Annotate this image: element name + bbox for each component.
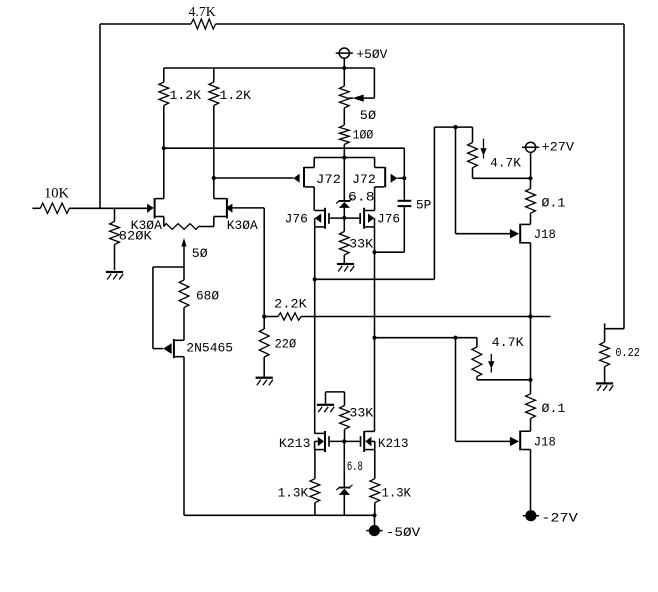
svg-text:68Ø: 68Ø — [196, 290, 219, 304]
svg-text:1.2K: 1.2K — [170, 89, 202, 103]
transistor Q2 K30A right — [214, 198, 233, 226]
wire gate line J72 left — [214, 177, 293, 179]
wire drain rail y148 — [164, 147, 404, 149]
svg-text:5P: 5P — [416, 198, 432, 212]
label R6 1.2K — [220, 89, 252, 103]
svg-text:5Ø: 5Ø — [360, 109, 377, 123]
label Q6 J76 — [285, 212, 308, 226]
wiper R7 — [349, 68, 375, 102]
svg-text:J76: J76 — [285, 212, 308, 226]
svg-text:33K: 33K — [349, 407, 373, 421]
potentiometer R3 50 — [164, 224, 214, 230]
label R9 33K — [349, 238, 373, 252]
zener D1 6.8 — [336, 158, 352, 218]
supply -50V — [366, 515, 382, 536]
svg-text:33K: 33K — [349, 238, 373, 252]
wire ground jog — [326, 392, 345, 406]
node divider — [262, 314, 266, 318]
supply -27V — [523, 510, 539, 521]
svg-text:+5ØV: +5ØV — [356, 48, 387, 62]
svg-text:K213: K213 — [378, 437, 409, 451]
svg-text:-5ØV: -5ØV — [386, 526, 421, 540]
ground GND4 — [317, 404, 334, 413]
resistor R5 1.2K — [159, 68, 169, 199]
node gate rail J76 — [342, 216, 346, 220]
node gate tap lower — [453, 336, 457, 340]
label R2 820K — [119, 230, 152, 244]
label R12 4.7K — [490, 157, 521, 171]
wire lower 4.7K line — [375, 337, 477, 339]
label Q7 J76 — [377, 212, 400, 226]
resistor R4 680 — [179, 267, 189, 340]
resistor R18 1.3K — [370, 479, 380, 516]
label R15 0.1 — [542, 402, 566, 416]
wiper arrow R3 — [181, 238, 186, 267]
transistor Q6 J76 left — [315, 208, 330, 279]
transistor Q10 K213 left — [315, 431, 330, 479]
svg-text:6.8: 6.8 — [348, 190, 375, 204]
node +27V branch — [528, 176, 532, 180]
ground GND5 — [596, 382, 613, 391]
resistor R16 33K — [340, 406, 350, 442]
svg-text:1.3K: 1.3K — [278, 487, 309, 501]
label Q10 K213 — [279, 437, 311, 451]
wire Q3 source down — [183, 357, 185, 516]
svg-text:10K: 10K — [44, 186, 70, 202]
arrow R12 — [480, 139, 486, 159]
node Q5 gate — [402, 176, 406, 180]
svg-text:4.7K: 4.7K — [492, 336, 524, 350]
wire Q5 gate — [397, 177, 404, 179]
transistor Q7 J76 right — [359, 208, 374, 252]
resistor R17 1.3K — [310, 479, 320, 516]
wire Q6 source to K213 — [314, 279, 316, 433]
label +50V — [356, 48, 387, 62]
resistor R9 33K — [339, 218, 349, 263]
resistor R2 820K — [110, 208, 120, 270]
zener D2 6.8 — [336, 441, 352, 515]
node -50V — [372, 513, 376, 517]
wire output line — [301, 316, 551, 318]
svg-text:5Ø: 5Ø — [192, 247, 208, 261]
wire left feedback drop — [99, 24, 101, 208]
label R18 1.3K — [382, 487, 412, 501]
wire folded rail — [315, 127, 473, 279]
rail top of loads — [164, 67, 375, 69]
resistor R11 220 — [259, 317, 269, 377]
resistor R6 1.2K — [209, 68, 219, 199]
wire 0.22 branch — [605, 323, 624, 342]
wire gate rail J76 — [330, 217, 359, 219]
node lower 0.1 top — [528, 378, 532, 382]
resistor R15 0.1 — [526, 379, 536, 431]
label R11 220 — [275, 338, 297, 352]
supply +27V — [522, 142, 539, 178]
svg-text:J18: J18 — [534, 436, 556, 450]
arrow R14 — [488, 354, 494, 373]
svg-text:1.2K: 1.2K — [220, 89, 252, 103]
transistor Q1 K30A left — [147, 198, 164, 226]
label D2 6.8 — [347, 460, 363, 474]
resistor R14 4.7K — [472, 338, 531, 380]
svg-text:+27V: +27V — [542, 141, 575, 155]
transistor Q11 K213 right — [360, 431, 375, 479]
resistor R8 100 — [339, 125, 349, 158]
wire gate rail K213 — [330, 440, 360, 442]
svg-text:Ø.1: Ø.1 — [542, 197, 566, 211]
node drain Q2 — [212, 176, 216, 180]
svg-text:Ø.1: Ø.1 — [542, 402, 566, 416]
wire J72 drain rail — [314, 157, 374, 159]
wire top feedback rail — [100, 23, 624, 25]
label R16 33K — [349, 407, 373, 421]
label R-IN 10K — [44, 186, 70, 202]
node +50V rail — [342, 66, 346, 70]
label -50V — [386, 526, 421, 540]
wire right feedback drop — [623, 24, 625, 329]
label R5 1.2K — [170, 89, 202, 103]
resistor R12 4.7K — [468, 127, 531, 178]
svg-text:J76: J76 — [377, 212, 400, 226]
wire bottom rail — [184, 514, 375, 516]
label Q4 J72 — [316, 173, 341, 187]
transistor Q5 J72 right — [375, 158, 398, 211]
label R10 2.2K — [274, 298, 307, 312]
svg-text:22Ø: 22Ø — [275, 338, 297, 352]
label R8 100 — [353, 128, 374, 142]
node gate tap upper — [453, 125, 457, 129]
node output upper — [528, 314, 532, 318]
label Q1 K30A — [131, 219, 163, 233]
svg-text:1.3K: 1.3K — [382, 487, 412, 501]
wire cap top — [403, 148, 405, 200]
svg-text:J18: J18 — [534, 228, 556, 242]
label Q2 K30A — [227, 219, 258, 233]
label Q11 K213 — [378, 437, 409, 451]
supply +50V — [336, 48, 353, 68]
capacitor C1 5P — [398, 200, 412, 207]
svg-text:K213: K213 — [279, 437, 311, 451]
ground GND2 — [337, 263, 354, 272]
label R14 4.7K — [492, 336, 524, 350]
label R7 50 — [360, 109, 377, 123]
wire input node — [69, 207, 147, 209]
svg-text:K3ØA: K3ØA — [131, 219, 163, 233]
resistor R-FB 4.7K — [191, 19, 216, 29]
node J72 drain rail — [342, 155, 346, 159]
label -27V — [541, 512, 578, 526]
label D1 6.8 — [348, 190, 375, 204]
svg-text:6.8: 6.8 — [347, 460, 363, 474]
resistor R13 0.1 — [526, 178, 536, 224]
svg-text:J72: J72 — [352, 173, 376, 187]
label Q5 J72 — [352, 173, 376, 187]
label R3 50 — [192, 247, 208, 261]
label R13 0.1 — [542, 197, 566, 211]
label R-FB 4.7K — [189, 4, 216, 19]
wire Q7 source to K213 — [374, 252, 376, 431]
transistor Q8 J18 upper — [510, 224, 531, 317]
svg-text:-27V: -27V — [541, 512, 578, 526]
wire cap bottom — [375, 207, 405, 252]
wire gate upper J18 — [456, 127, 511, 234]
label R19 0.22 — [615, 346, 640, 360]
resistor R10 2.2K — [264, 313, 301, 320]
label C1 5P — [416, 198, 432, 212]
svg-text:1ØØ: 1ØØ — [353, 128, 374, 142]
label R4 680 — [196, 290, 219, 304]
node Q7 source — [372, 250, 376, 254]
svg-text:2.2K: 2.2K — [274, 298, 307, 312]
node drain Q1 — [162, 146, 166, 150]
ground GND1 — [106, 271, 123, 280]
wire wiper to 2N5465 gate — [153, 267, 184, 349]
label Q9 J18 — [534, 436, 556, 450]
wire output to lower — [530, 317, 532, 380]
svg-text:2N5465: 2N5465 — [186, 342, 233, 356]
transistor Q9 J18 lower — [510, 431, 531, 511]
svg-text:4.7K: 4.7K — [490, 157, 521, 171]
svg-text:K3ØA: K3ØA — [227, 219, 258, 233]
label Q8 J18 — [534, 228, 556, 242]
label +27V — [542, 141, 575, 155]
label R17 1.3K — [278, 487, 309, 501]
node gate rail K213 — [342, 439, 346, 443]
resistor R19 0.22 — [600, 342, 610, 382]
node lower line left — [372, 336, 376, 340]
wire gate lower J18 — [456, 338, 511, 442]
potentiometer R7 50 — [339, 68, 349, 125]
resistor R-IN 10K — [32, 203, 69, 213]
node Q6 source — [313, 277, 317, 281]
svg-text:J72: J72 — [316, 173, 341, 187]
label Q3 2N5465 — [186, 342, 233, 356]
ground GND3 — [256, 377, 273, 386]
svg-text:0.22: 0.22 — [615, 346, 640, 360]
svg-text:4.7K: 4.7K — [189, 4, 216, 19]
transistor Q4 J72 left — [293, 158, 314, 211]
wire Q2 gate — [232, 208, 264, 317]
transistor Q3 2N5465 — [163, 339, 184, 358]
